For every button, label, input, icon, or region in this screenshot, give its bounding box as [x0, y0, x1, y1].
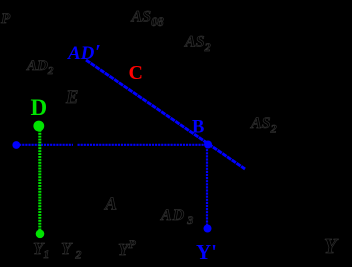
svg-text:AS08: AS08: [131, 9, 165, 30]
svg-text:A: A: [104, 194, 117, 214]
svg-text:YP: YP: [118, 237, 136, 259]
svg-text:AS2: AS2: [250, 115, 277, 136]
green dot bottom at Y1: [36, 230, 45, 239]
svg-text:C: C: [129, 62, 143, 84]
svg-text:AD2: AD2: [26, 58, 54, 77]
blue dot at Y' on x-axis: [204, 225, 212, 233]
dashed horizontal price line from P-axis to point B: [16, 144, 73, 146]
svg-text:AS2: AS2: [184, 34, 211, 55]
svg-text:Y: Y: [324, 234, 339, 258]
svg-text:D: D: [31, 95, 48, 120]
AD' demand line (blue diagonal): [86, 60, 245, 169]
wire: dashed price line right part: [78, 144, 208, 146]
blue dot on P axis: [12, 141, 20, 149]
svg-text:Y2: Y2: [61, 239, 81, 262]
green dotted vertical line at Y1: [38, 127, 41, 231]
svg-text:Y1: Y1: [33, 239, 49, 261]
svg-text:Y': Y': [196, 240, 217, 264]
dashed vertical line from B down to Y': [206, 146, 208, 226]
svg-text:B: B: [192, 118, 204, 138]
svg-text:P: P: [1, 11, 11, 27]
svg-text:E: E: [65, 88, 78, 108]
svg-text:AD′: AD′: [67, 40, 101, 64]
green dot top (point D): [33, 121, 44, 132]
svg-text:AD3: AD3: [160, 207, 194, 227]
point B marker: [204, 141, 212, 149]
